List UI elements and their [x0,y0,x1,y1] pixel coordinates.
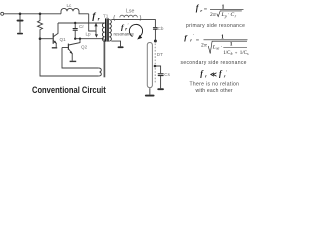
svg-text:+: + [235,50,238,55]
svg-text:Lp: Lp [86,32,92,37]
svg-text:Cs: Cs [164,72,170,77]
svg-text:T1: T1 [103,13,109,18]
svg-text:π: π [213,12,216,18]
svg-text:with each other: with each other [196,88,233,94]
svg-text:secondary side resonance: secondary side resonance [181,60,247,66]
svg-text:There is no relation: There is no relation [190,81,240,87]
svg-text:b: b [231,52,233,56]
svg-text:r: r [205,73,207,78]
svg-text:resonance: resonance [114,31,135,36]
svg-text:Lse: Lse [126,8,134,14]
svg-text:Cr: Cr [79,24,84,29]
svg-text:Q2: Q2 [81,44,88,49]
svg-text:r: r [200,8,202,13]
svg-text:′: ′ [128,22,129,27]
svg-text:π: π [204,42,207,48]
svg-text:primary side resonance: primary side resonance [186,23,245,29]
svg-text:1: 1 [230,42,233,48]
svg-text:′: ′ [226,69,227,74]
svg-text:DT: DT [157,52,163,57]
svg-text:=: = [204,8,208,14]
svg-text:′: ′ [193,33,194,38]
svg-text:≪: ≪ [210,71,217,78]
svg-text:p: p [224,14,227,18]
svg-text:Q1: Q1 [60,37,67,42]
svg-text:): ) [140,15,142,21]
svg-text:r: r [125,28,127,33]
svg-text:(: ( [113,15,115,21]
svg-text:se: se [216,47,219,51]
svg-text:=: = [196,38,200,44]
svg-text:Lc: Lc [67,3,73,8]
svg-text:Cb: Cb [158,26,164,31]
svg-text:Conventional Circuit: Conventional Circuit [32,84,106,95]
